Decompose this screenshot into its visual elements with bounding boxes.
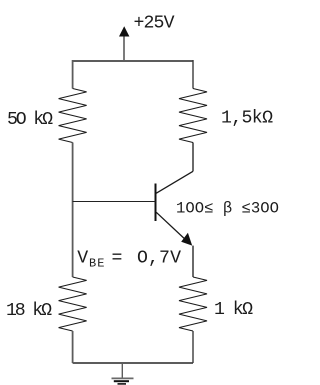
- wire right vertical lower lead: [192, 331, 194, 363]
- transistor Q1 base bar: [155, 184, 157, 222]
- wire bottom horizontal: [73, 362, 193, 364]
- +25V supply arrowhead: [119, 26, 129, 36]
- svg-text:5O kΩ: 5O kΩ: [7, 110, 53, 130]
- ground bar 1: [112, 377, 134, 379]
- ground bar 3: [118, 383, 127, 385]
- wire base horizontal: [73, 201, 156, 203]
- wire left vertical lower lead: [72, 331, 74, 363]
- wire collector vertical: [192, 143, 194, 172]
- svg-text:18 kΩ: 18 kΩ: [6, 301, 52, 321]
- svg-text:BE: BE: [89, 257, 105, 271]
- wire +25V arrow stem: [123, 35, 125, 61]
- svg-text:O,7V: O,7V: [137, 249, 181, 269]
- wire right vertical upper lead: [192, 60, 194, 89]
- wire top horizontal (VCC rail): [73, 60, 193, 62]
- svg-text:+25V: +25V: [134, 14, 175, 34]
- svg-text:=: =: [112, 249, 123, 269]
- wire emitter vertical: [192, 246, 194, 277]
- wire left vertical middle (R1 bottom to R2 top, base tap): [72, 143, 74, 278]
- svg-text:1OO≤ β ≤3OO: 1OO≤ β ≤3OO: [176, 199, 279, 217]
- transistor Q1 emitter diagonal with arrow: [156, 212, 188, 242]
- transistor Q1 collector diagonal: [156, 171, 193, 193]
- svg-text:1,5kΩ: 1,5kΩ: [221, 108, 273, 128]
- ground stem: [121, 363, 123, 378]
- wire left vertical upper lead: [72, 60, 74, 89]
- svg-text:V: V: [77, 249, 88, 269]
- resistor R2 18k zigzag: [59, 277, 87, 331]
- resistor R1 50k zigzag: [59, 89, 87, 143]
- resistor R3 1,5k zigzag: [179, 89, 207, 143]
- resistor R4 1k zigzag: [179, 277, 207, 331]
- ground bar 2: [114, 380, 129, 382]
- svg-text:1 kΩ: 1 kΩ: [214, 300, 253, 320]
